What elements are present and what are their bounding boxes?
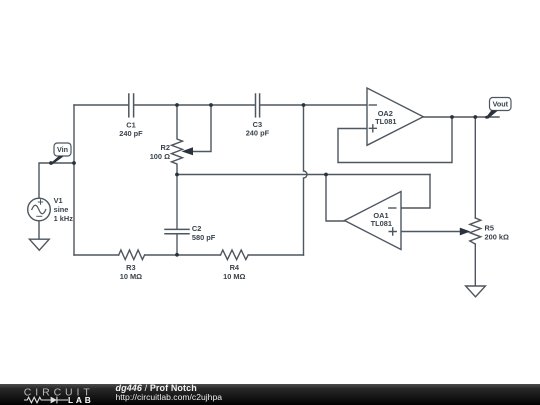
footer bar <box>0 384 540 405</box>
svg-text:100 Ω: 100 Ω <box>150 152 170 161</box>
wire R2 wiper from top net <box>193 105 211 152</box>
svg-text:240 pF: 240 pF <box>246 128 270 137</box>
flag Vout tail <box>486 110 498 119</box>
svg-text:200 kΩ: 200 kΩ <box>485 232 509 241</box>
junction node top/riser <box>302 103 306 107</box>
svg-text:TL081: TL081 <box>371 219 392 228</box>
junction node V1/left bus <box>72 161 76 165</box>
op-amp OA2 body <box>367 88 423 145</box>
svg-text:1 kHz: 1 kHz <box>54 214 74 223</box>
svg-text:Vin: Vin <box>57 145 68 154</box>
op-amp OA2 plus pin mark <box>369 125 376 132</box>
wire C1 to C3 <box>134 104 255 106</box>
svg-text:10 MΩ: 10 MΩ <box>120 272 142 281</box>
wire V1 minus to ground <box>38 221 40 239</box>
wire R3 to R4 <box>145 254 221 256</box>
svg-text:10 MΩ: 10 MΩ <box>223 272 245 281</box>
svg-text:R2: R2 <box>161 143 170 152</box>
wire R5 top lead from output net <box>474 117 476 218</box>
op-amp OA2 minus pin mark <box>369 104 376 106</box>
wire node net R2 bottom to OA1 area <box>177 174 430 176</box>
svg-text:TL081: TL081 <box>375 117 396 126</box>
resistor R4 <box>221 250 249 260</box>
capacitor C2 <box>165 175 189 256</box>
ground symbol at R5 <box>466 286 486 297</box>
wire left vertical bus <box>73 105 75 255</box>
resistor R5 (pot body) <box>470 218 481 244</box>
op-amp OA1 minus pin mark <box>389 207 396 209</box>
CircuitLab logo <box>18 384 118 405</box>
op-amp OA1 plus pin mark <box>389 228 396 235</box>
pot R5 wiper arrow <box>460 228 471 236</box>
junction node Vin attach <box>49 161 53 165</box>
junction node OA1 out on mid net <box>324 173 328 177</box>
flag Vout box <box>490 98 512 111</box>
wire top left to C1 <box>74 104 128 106</box>
capacitor C1 <box>129 94 134 117</box>
flag Vin tail <box>51 156 64 165</box>
resistor R2 (pot body) <box>172 105 183 175</box>
source V1 minus mark <box>37 215 42 217</box>
junction node R2 top <box>175 103 179 107</box>
wire OA2 noninverting feedback loop <box>338 117 452 163</box>
footer title text <box>116 383 197 393</box>
wire R5 bottom lead to ground <box>474 244 476 286</box>
svg-text:580 pF: 580 pF <box>192 233 216 242</box>
wire V1 plus to Vin node <box>39 163 74 198</box>
footer url text <box>116 392 223 402</box>
junction node Vout attach <box>485 116 488 119</box>
svg-text:Vout: Vout <box>493 100 509 109</box>
resistor R3 <box>119 250 145 260</box>
wire OA1 output to mid net <box>326 175 345 222</box>
junction node R5 on output <box>473 115 477 119</box>
wire C3 to OA2 inverting input <box>260 104 367 106</box>
junction node feedback on output <box>450 115 454 119</box>
svg-text:R4: R4 <box>230 263 240 272</box>
wire bottom V1 to R3 <box>74 254 119 256</box>
svg-text:240 pF: 240 pF <box>119 129 143 138</box>
flag Vin box <box>54 143 71 156</box>
ground symbol at V1 <box>29 239 49 250</box>
junction node R2 wiper top <box>209 103 213 107</box>
svg-text:R3: R3 <box>126 263 135 272</box>
source V1 sine mark <box>32 205 46 214</box>
capacitor C3 <box>256 94 260 117</box>
junction node R2 bottom / C2 top <box>175 173 179 177</box>
wire R4 to right riser <box>248 254 303 256</box>
pot R2 wiper arrow <box>182 147 194 155</box>
source V1 plus mark <box>38 200 42 204</box>
wire OA1 inverting input drop <box>401 175 430 209</box>
wire OA2 output to Vout <box>423 116 499 118</box>
svg-text:R5: R5 <box>485 224 494 233</box>
op-amp OA1 body <box>345 192 402 250</box>
junction node C2 bottom <box>175 253 179 257</box>
svg-text:V1: V1 <box>54 196 63 205</box>
svg-text:sine: sine <box>54 205 69 214</box>
source V1 circle <box>28 198 51 221</box>
wire OA1 noninverting to R5 wiper <box>401 231 460 233</box>
wire right riser with hop over mid net <box>304 105 308 255</box>
svg-text:LAB: LAB <box>68 395 94 405</box>
svg-text:C2: C2 <box>192 224 201 233</box>
